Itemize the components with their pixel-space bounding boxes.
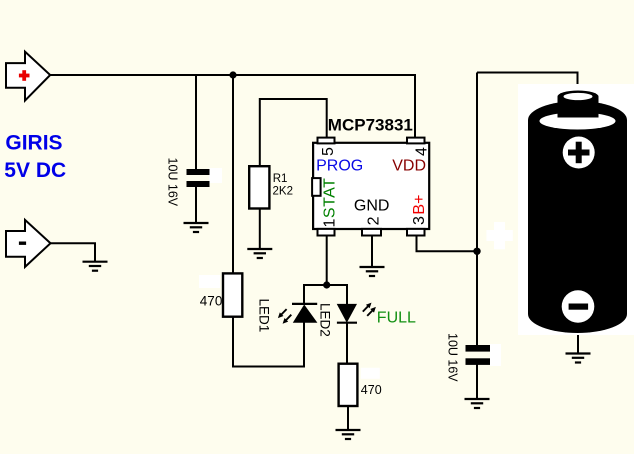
svg-text:GND: GND	[354, 197, 390, 214]
svg-text:470: 470	[200, 293, 223, 308]
svg-text:2K2: 2K2	[273, 185, 293, 197]
svg-text:LED2: LED2	[317, 303, 332, 337]
svg-text:4: 4	[414, 147, 431, 156]
svg-text:2: 2	[365, 216, 382, 225]
svg-text:10U 16V: 10U 16V	[166, 158, 180, 207]
svg-text:5: 5	[320, 147, 337, 156]
svg-text:1STAT: 1STAT	[322, 178, 339, 228]
svg-text:MCP73831: MCP73831	[328, 116, 413, 135]
svg-text:VDD: VDD	[392, 158, 426, 175]
svg-text:5V DC: 5V DC	[4, 159, 66, 182]
svg-text:R1: R1	[273, 173, 288, 185]
svg-text:PROG: PROG	[316, 158, 363, 175]
svg-text:LED1: LED1	[257, 299, 272, 333]
svg-text:3B+: 3B+	[411, 195, 428, 225]
svg-text:GIRIS: GIRIS	[5, 131, 62, 154]
svg-text:470: 470	[361, 383, 382, 397]
svg-text:10U 16V: 10U 16V	[446, 333, 460, 382]
svg-text:FULL: FULL	[377, 309, 416, 326]
